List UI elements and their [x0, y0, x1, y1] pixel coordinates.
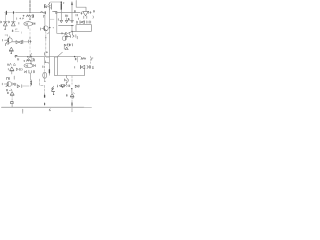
- transistor Q1 triangle: [83, 11, 89, 16]
- node dot K: [11, 53, 12, 54]
- wire R3 to L1: [28, 17, 30, 22]
- label 4: [52, 87, 53, 89]
- node dot P: [15, 56, 16, 57]
- wire x30.5 down: [31, 73, 32, 80]
- label R stage3: [74, 58, 77, 60]
- component blob on x49.5: [48, 70, 50, 73]
- wire diagonal down-left: [64, 32, 72, 35]
- arrow slash through R5: [27, 53, 31, 60]
- label s stage3: [74, 66, 76, 68]
- Q4 emitter arrow: [6, 85, 8, 87]
- node dot R: [71, 88, 72, 89]
- wire top rail right: [57, 12, 80, 14]
- wire x77.5: [77, 56, 79, 62]
- label cap right of L2: [33, 64, 35, 66]
- label s left Q4: [1, 83, 3, 85]
- diode D4 triangle up: [9, 47, 13, 51]
- label n above T2: [8, 64, 9, 66]
- specks above row: [53, 85, 57, 88]
- capacitor C3 right triangle: [19, 41, 22, 44]
- wire vertical bus x49.5: [49, 10, 51, 75]
- wire top rail: [16, 12, 44, 14]
- label R1: [0, 21, 3, 23]
- node dot S: [53, 94, 54, 95]
- bus tick below x22.8: [22, 109, 24, 113]
- arrow A2 down triangle: [71, 20, 74, 22]
- label 5 x43.9: [43, 66, 45, 68]
- corner speck y29: [16, 29, 17, 30]
- node dot C: [29, 19, 30, 20]
- node small circle F: [55, 12, 57, 14]
- wire vertical bus x30 top: [29, 1, 31, 13]
- arrow A1 down triangle: [60, 20, 63, 22]
- diode D6 triangle up bottom-left: [10, 92, 14, 96]
- label 5 left of Q2: [39, 28, 41, 30]
- diode D1: [3, 22, 7, 26]
- C5 inner bar: [44, 73, 46, 78]
- node junction blob J2: [13, 12, 15, 14]
- label R2: [8, 21, 11, 23]
- wire x90.3 dashes: [89, 56, 91, 64]
- diode D2 lead: [12, 14, 14, 22]
- row diode D9 right triangle: [75, 85, 78, 88]
- diode D2: [11, 22, 15, 26]
- wire x30.5 lower: [30, 85, 32, 87]
- wire to bus x72: [71, 105, 73, 107]
- wire top y2 to C1: [50, 1, 61, 4]
- wire top rail left faint: [5, 12, 17, 14]
- wire box to node: [72, 31, 76, 33]
- label 1: [51, 4, 53, 10]
- node dot G: [53, 27, 54, 28]
- label 7 3: [89, 11, 91, 13]
- label 5 under rail: [76, 14, 77, 16]
- row arc: [66, 85, 68, 87]
- node dot A: [4, 29, 5, 30]
- label 5 top: [44, 5, 45, 8]
- Q1 base mark: [81, 12, 82, 14]
- row bar: [64, 84, 65, 87]
- wire D5 down: [11, 71, 13, 74]
- label R under Q4: [7, 89, 12, 91]
- tiny triangle mark x14: [13, 63, 15, 65]
- wire R5 down: [30, 62, 32, 64]
- wire Q2 collector up: [44, 16, 46, 26]
- box T1 outline: [76, 25, 92, 32]
- diode D7 row: bar: [80, 65, 82, 68]
- wire Q5 emitter down: [84, 69, 86, 75]
- zig above T2: [9, 63, 11, 66]
- faint stub y31.7: [15, 32, 22, 34]
- wire C3 to bus: [24, 41, 29, 43]
- capacitor C4 row stage2: [17, 85, 22, 88]
- tick x42.3: [41, 66, 43, 68]
- node dot E: [49, 27, 50, 28]
- transistor Q3 circle: [7, 38, 12, 43]
- label 5 left of A2: [68, 18, 69, 20]
- transistor Q7 circle: [62, 36, 66, 40]
- Q1 legs: [84, 16, 87, 19]
- Q4 right marks: [12, 83, 15, 86]
- wire D1 lower lead: [4, 26, 6, 29]
- label 5 near corner: [44, 61, 46, 63]
- label marks x62.5: [62, 86, 63, 87]
- Q5 lead down: [53, 92, 55, 94]
- diode D7 triangle left: [81, 65, 85, 68]
- wire C2 down: [71, 5, 73, 20]
- wire vertical x72 arrow lead: [71, 3, 73, 5]
- label 2 left D10: [65, 95, 68, 97]
- label R far right: [93, 10, 94, 12]
- wire to bus blob: [44, 103, 46, 105]
- Q3 collector lead right: [12, 41, 16, 43]
- node dot D: [29, 37, 30, 38]
- label 2stack x62.5: [61, 86, 63, 88]
- Q3 emitter arrow: [6, 41, 8, 43]
- transistor Q5 slash: [51, 88, 53, 91]
- wire x72 mid drop: [71, 26, 73, 31]
- blob on x72: [71, 103, 73, 105]
- row box R9: [62, 85, 64, 87]
- node dot on rail x72: [71, 25, 72, 26]
- L1 inner mark: [26, 23, 28, 25]
- arrow slash mid: [58, 52, 63, 56]
- wire Q2 emitter down: [45, 31, 47, 57]
- label cap right of L1: [33, 22, 35, 24]
- label 7 under Q3: [5, 43, 9, 45]
- wire C1 down: [60, 10, 62, 21]
- component row y71.5: [24, 70, 34, 73]
- row diode D8 left triangle: [59, 85, 61, 87]
- Q2 base lead: [42, 27, 45, 29]
- Q7 arrow lead: [66, 36, 71, 38]
- L2 inner mark: [26, 65, 28, 67]
- node dot L: [27, 56, 28, 57]
- capacitor C3 left triangle: [16, 41, 19, 44]
- inductor L2 ellipse: [24, 64, 33, 68]
- wire mid rail y25.5: [59, 25, 74, 27]
- label 7 under Q6: [66, 83, 67, 85]
- label leq right: [92, 66, 93, 68]
- Q3 collector specks: [5, 35, 10, 38]
- diode D1 lead: [4, 14, 6, 22]
- node marks at x45 y54: [44, 52, 47, 56]
- wire C5 down: [44, 78, 46, 81]
- wire squiggle on rail: [41, 11, 45, 13]
- wire arc into bus: [47, 32, 49, 34]
- capacitor C6 row y69.3: [16, 68, 22, 70]
- wire vertical x56.8: [57, 15, 67, 35]
- wire x44.7 to oval: [44, 63, 46, 73]
- row label 5: [68, 85, 71, 87]
- label less: [24, 60, 25, 61]
- label s left: [1, 39, 3, 41]
- Q3 base lead: [5, 39, 9, 41]
- node dot C5: [44, 81, 45, 82]
- label 5 row: [76, 21, 77, 23]
- capacitor C1 top bar: [60, 2, 62, 9]
- resistor R3 zigzag: [27, 15, 32, 17]
- resistor R5 zigzag: [27, 59, 32, 61]
- transistor Q4 circle: [7, 82, 12, 87]
- arc wire left x73.5: [72, 95, 75, 99]
- row label 5 right: [78, 85, 80, 87]
- tick left of x49.5: [47, 62, 49, 63]
- wire R6 to bus: [11, 104, 13, 108]
- node dot I: [45, 37, 46, 38]
- Q3 base bar: [8, 38, 10, 42]
- blob on x30.5: [30, 81, 32, 85]
- label 7 right of D11: [69, 44, 70, 46]
- label 9: [32, 15, 34, 17]
- wire D10 down: [71, 97, 73, 102]
- bottom bus: [2, 106, 85, 108]
- wire D4 down: [10, 51, 12, 53]
- label 1y: [45, 5, 48, 8]
- diode D5 triangle up: [10, 67, 14, 71]
- diode D11 right triangle: [64, 44, 68, 46]
- C3 bar: [22, 40, 24, 43]
- wire top rail mid: [53, 11, 58, 13]
- label colon: [29, 81, 31, 84]
- wire x72 from rail to row: [71, 76, 73, 84]
- Q2 base bar: [44, 26, 46, 30]
- label comma: [7, 68, 9, 70]
- label 5 2 row right: [87, 21, 91, 23]
- label gt 5: [87, 65, 90, 68]
- Q4 base lead: [4, 83, 8, 85]
- node dot O: [30, 63, 31, 64]
- node dot H: [71, 31, 72, 32]
- wire top right corner: [76, 1, 86, 12]
- row y85.8: label 5: [56, 85, 58, 87]
- Q5 bar: [52, 91, 55, 93]
- label R top right: [73, 10, 76, 12]
- wire y57.7 stub: [46, 57, 49, 59]
- label leq below bus: [49, 109, 50, 111]
- label 1 plus sqrt under rail: [17, 18, 24, 20]
- label 5 near bus: [29, 40, 32, 43]
- wire L1 down: [27, 26, 29, 29]
- bus ticks below x72: [71, 108, 73, 111]
- node tick B: [12, 30, 14, 32]
- diode D10 triangle up: [70, 94, 74, 97]
- label R left D6: [6, 92, 9, 94]
- capacitor C5 oval: [43, 72, 47, 78]
- arrow A3 down triangle: [65, 20, 68, 22]
- label 5 right of D2: [18, 22, 20, 24]
- label 7 right: [92, 58, 93, 60]
- Q7 right marks: [71, 35, 78, 39]
- Q7 base bar: [65, 36, 67, 40]
- resistor R6 small box: [11, 102, 13, 104]
- label 5: [34, 59, 36, 61]
- wire stub y19: [50, 18, 54, 20]
- node blob rail x45: [44, 12, 46, 14]
- label corner5: [7, 78, 10, 80]
- label s left of D12: [63, 47, 65, 49]
- node blob Q: [44, 95, 46, 97]
- label paren: [92, 16, 95, 19]
- node bar start wire: [15, 54, 17, 56]
- wire D6 down: [11, 96, 13, 102]
- wire corner into x56.8: [54, 12, 57, 16]
- wire dogleg x39.7: [40, 79, 45, 95]
- node plus M: [30, 56, 32, 58]
- wire short drop x66.6: [66, 18, 68, 20]
- Q4 base bar: [7, 82, 9, 86]
- label s stage2 top: [18, 58, 19, 60]
- capacitor C2 arrowhead: [71, 2, 73, 5]
- label gt speck: [63, 2, 64, 3]
- label 2 stack 2: [32, 58, 33, 62]
- wire C4 right: [23, 85, 30, 87]
- label s left of diode row: [77, 18, 79, 20]
- wire vertical bus x30 mid faint: [29, 29, 31, 57]
- label tick right D10: [73, 93, 74, 94]
- wire mid rail y56.7: [15, 56, 81, 58]
- transistor Q6 small: [65, 79, 69, 82]
- node dot N: [74, 56, 75, 57]
- diode D3 left pointing: [80, 21, 84, 24]
- inductor L1 ellipse: [24, 22, 33, 26]
- wire x72 to D10: [71, 89, 73, 93]
- tall resistor R7 box: [54, 57, 57, 75]
- label 2 stack: [32, 14, 33, 17]
- node junction blob J1: [5, 11, 7, 14]
- transistor Q2 circle: [43, 26, 48, 31]
- wire corner x44.7: [44, 57, 48, 62]
- label plus: [23, 15, 24, 16]
- label lvl under Q7: [67, 44, 72, 46]
- label 1,2 under rail: [65, 15, 67, 17]
- bottom bus fade: [84, 106, 92, 108]
- label 5 left of A1: [57, 19, 59, 21]
- wire lead x14.2: [13, 76, 15, 79]
- transistor Q7 specks above: [62, 32, 73, 35]
- wire rail y75.3: [57, 74, 84, 76]
- diode D12 triangle up: [65, 47, 68, 49]
- Q6 collector lead: [65, 76, 67, 78]
- Q2 emitter arrow: [45, 29, 47, 31]
- resistor R4 vertical zigzag: [49, 3, 51, 10]
- label 7: [44, 15, 45, 17]
- resistor R8 zigzag: [81, 57, 86, 59]
